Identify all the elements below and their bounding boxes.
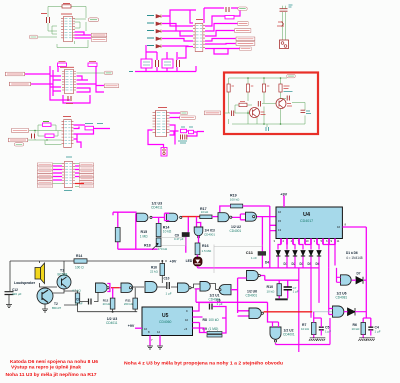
wire magenta IC1 out — [75, 32, 92, 38]
gate G2 NAND — [166, 213, 177, 221]
svg-text:16: 16 — [278, 210, 282, 214]
svg-text:200 kΩ: 200 kΩ — [124, 302, 133, 306]
resistor Ra5 — [239, 103, 247, 106]
diode D6b — [348, 308, 356, 316]
svg-text:+5: +5 — [184, 327, 188, 331]
IC3 gates — [62, 120, 74, 148]
svg-text:Katoda D6 není spojena na nohu: Katoda D6 není spojena na nohu 8 U6 — [10, 359, 98, 365]
wire magenta mid rail — [196, 289, 273, 322]
loudspeaker — [14, 263, 45, 285]
IC U4 CD4017 — [276, 207, 342, 239]
node label CON6B1_L5 — [11, 129, 28, 133]
svg-text:BD137: BD137 — [52, 306, 62, 310]
wire magenta IC3 right — [74, 125, 111, 148]
capacitor C4 — [368, 327, 373, 330]
capacitor bank AL2/C7 — [141, 59, 180, 68]
svg-text:Loudspeaker: Loudspeaker — [14, 281, 36, 285]
svg-text:R14: R14 — [76, 254, 82, 258]
wire red G2 to R17 — [182, 216, 200, 218]
wire magenta bus IC2 — [50, 63, 104, 103]
diodes D4 D1 D2 D3 D5 D6 — [265, 251, 321, 267]
IC U5 CD4060 — [142, 307, 193, 336]
wire magenta cap bus — [135, 66, 196, 72]
node JP labels column — [238, 22, 249, 26]
svg-text:1 MΩ: 1 MΩ — [140, 234, 148, 238]
node GND caps — [129, 71, 133, 73]
resistor R13b — [75, 293, 79, 303]
wire green amp rails — [224, 78, 305, 127]
svg-text:CD4060: CD4060 — [159, 320, 172, 324]
capacitor C16 — [226, 7, 229, 12]
svg-text:R16: R16 — [202, 244, 209, 248]
svg-text:10 kΩ: 10 kΩ — [163, 230, 172, 234]
resistor Ra1 — [227, 84, 230, 92]
resistor R16 22k — [160, 264, 165, 276]
connector MA-RIGHT — [277, 5, 293, 49]
svg-text:10: 10 — [306, 239, 310, 243]
capacitor Cc — [287, 96, 289, 101]
resistor R16b — [198, 236, 200, 243]
svg-text:13: 13 — [278, 228, 282, 232]
svg-text:CD4081: CD4081 — [336, 296, 348, 300]
capacitor C17 — [32, 134, 35, 139]
gate U1a left — [219, 285, 231, 295]
gray frame mid — [214, 245, 262, 274]
wire green harness IC1 — [38, 7, 88, 48]
transistor Q2amp — [276, 99, 286, 109]
svg-text:10 kΩ: 10 kΩ — [267, 289, 276, 293]
svg-text:1 µF: 1 µF — [217, 302, 223, 306]
svg-text:CD4001: CD4001 — [246, 294, 258, 298]
svg-text:1 µF: 1 µF — [325, 330, 331, 334]
svg-text:22 nF: 22 nF — [75, 302, 83, 306]
capacitor C15 — [68, 96, 71, 101]
svg-text:4.7 kΩ: 4.7 kΩ — [72, 289, 82, 293]
resistor R14 — [156, 223, 161, 236]
resistor R2 — [58, 63, 67, 66]
wire magenta diode drops — [276, 257, 331, 353]
svg-text:CD4001: CD4001 — [230, 229, 242, 233]
svg-text:1 µF: 1 µF — [293, 289, 299, 293]
transistor T1 BC548 — [57, 275, 71, 289]
wire magenta IC4 harness — [146, 8, 240, 60]
svg-text:C10: C10 — [164, 277, 170, 281]
node gnd green — [104, 71, 112, 75]
red correction box — [224, 73, 318, 135]
svg-text:R15: R15 — [141, 230, 148, 234]
capacitor C8 — [89, 299, 92, 305]
svg-text:LED: LED — [186, 259, 193, 263]
wires R7C5 — [314, 312, 322, 338]
gate GA — [96, 283, 108, 292]
svg-text:D4: D4 — [265, 261, 269, 265]
resistor R4 — [225, 16, 234, 19]
diode D7 — [356, 277, 363, 284]
wire red gate AB — [111, 287, 120, 289]
svg-text:Noha 11 U3 by měla jít nepřímo: Noha 11 U3 by měla jít nepřímo na R17 — [6, 372, 97, 378]
svg-text:100 Ω: 100 Ω — [75, 266, 84, 270]
node VCC oval IC5 — [180, 111, 188, 114]
wire red U1 out — [264, 311, 313, 313]
node left label column IC6 — [37, 163, 52, 166]
node OUT labels — [91, 33, 106, 37]
svg-text:16: 16 — [337, 225, 341, 229]
wire black R11 R12 — [78, 288, 138, 312]
svg-text:22 kΩ: 22 kΩ — [150, 270, 159, 274]
svg-text:(1 MΩ): (1 MΩ) — [209, 327, 219, 331]
svg-text:BC548: BC548 — [58, 273, 68, 277]
svg-text:CD4017: CD4017 — [300, 219, 313, 223]
capacitor C18 C19 — [181, 135, 187, 140]
svg-text:CD4001: CD4001 — [283, 333, 295, 337]
svg-text:12: 12 — [157, 330, 161, 334]
resistor Ra3 — [262, 84, 265, 92]
junction dots amp — [247, 77, 281, 125]
diode array D10-D14 — [147, 15, 161, 48]
wire magenta LED bus — [198, 266, 320, 268]
ground T2 — [44, 304, 46, 309]
gate G8 U6 AND — [333, 306, 344, 317]
wire magenta U4 right — [342, 227, 370, 327]
svg-text:100 kΩ: 100 kΩ — [230, 198, 240, 202]
IC2 CD4093 — [62, 69, 76, 93]
svg-text:U4: U4 — [303, 212, 311, 218]
gate GE — [200, 282, 210, 292]
gate G8d AND D7 — [341, 275, 352, 285]
wire magenta IC5 — [148, 113, 204, 148]
svg-text:U5: U5 — [162, 313, 169, 319]
resistor R3 — [88, 63, 97, 66]
resistor R14b 100R — [74, 259, 87, 263]
svg-text:+9V: +9V — [128, 324, 135, 328]
node labels right IC3 — [85, 123, 103, 125]
IC5 osc — [153, 110, 170, 136]
node GND label — [29, 35, 37, 39]
svg-text:10: 10 — [185, 318, 189, 322]
wire black left rails — [10, 261, 221, 305]
gate G4 NOR — [246, 212, 257, 221]
gate GB — [121, 283, 133, 292]
capacitor Cm — [258, 101, 260, 107]
wire magenta IC6 rows — [53, 166, 79, 180]
node GND amp — [266, 127, 269, 131]
node label CLK — [104, 84, 118, 88]
capacitor C12 — [5, 292, 14, 295]
svg-text:220 µF: 220 µF — [12, 292, 22, 296]
capacitor C14 — [47, 17, 50, 23]
resistor R6a — [45, 134, 54, 137]
resistor R13 — [62, 5, 71, 8]
svg-text:R8: R8 — [203, 318, 207, 322]
svg-text:0.47 µF: 0.47 µF — [174, 237, 184, 241]
svg-text:10 kΩ: 10 kΩ — [352, 327, 361, 331]
svg-text:15: 15 — [278, 219, 282, 223]
U5 ground stubs — [150, 336, 160, 346]
svg-text:Noha 4 z U3 by měla byt propoj: Noha 4 z U3 by měla byt propojena na noh… — [124, 360, 283, 366]
svg-text:Výstup na repro je úplně jinak: Výstup na repro je úplně jinak — [11, 365, 81, 371]
node VCC label — [88, 18, 98, 22]
node label CON6B1 — [9, 82, 30, 86]
node SIGNAL_IN — [204, 111, 220, 115]
wire magenta R8 R9 loop — [193, 303, 227, 334]
svg-text:1 µF: 1 µF — [375, 330, 381, 334]
svg-text:1 nF: 1 nF — [251, 256, 257, 260]
svg-text:D1 á D6: D1 á D6 — [346, 251, 358, 255]
svg-text:D7: D7 — [357, 272, 361, 276]
svg-text:+9V: +9V — [170, 260, 177, 264]
transistor Q1amp — [250, 108, 260, 118]
resistor R5a — [43, 123, 52, 126]
wire red IC6 — [75, 183, 84, 185]
IC4 counter — [193, 24, 205, 52]
resistor Ra4 R68 — [279, 84, 282, 92]
wire magenta gate A loop — [107, 284, 112, 299]
svg-text:10 kΩ: 10 kΩ — [201, 210, 208, 214]
wire gray U1 out — [312, 311, 333, 313]
ground bar R10 C7 — [275, 298, 288, 300]
svg-text:10 kΩ: 10 kΩ — [301, 327, 310, 331]
wire green harness IC3 — [28, 125, 62, 145]
wire magenta R19 — [220, 206, 276, 268]
node right label column IC6 — [79, 163, 93, 166]
capacitor Cout 50Hz — [301, 110, 306, 112]
capacitor Cin — [232, 111, 234, 117]
svg-text:R18: R18 — [144, 244, 151, 248]
connector J2 — [161, 148, 167, 157]
capacitor C6 — [210, 304, 213, 310]
resistor R15 — [115, 228, 120, 242]
node label CON6B1_L6 — [8, 138, 27, 142]
gate G1 NAND — [137, 213, 148, 221]
svg-text:4 = 1N4148: 4 = 1N4148 — [346, 256, 363, 260]
svg-text:100 kΩ: 100 kΩ — [209, 318, 220, 322]
resistor RCL1 — [85, 126, 94, 130]
capacitor C10 — [167, 282, 170, 289]
wire magenta U3 loop — [113, 212, 188, 253]
wires R6C4 — [363, 330, 371, 338]
wire magenta to labels — [25, 74, 53, 84]
node oval clusterC — [238, 7, 247, 11]
svg-text:CD4001: CD4001 — [204, 232, 215, 236]
svg-text:11: 11 — [337, 239, 340, 243]
svg-text:CD4011: CD4011 — [151, 205, 163, 209]
crystal Q1 — [181, 129, 187, 132]
node VCC amp — [287, 74, 295, 78]
capacitor C7 — [284, 287, 292, 290]
gray frame R18 — [158, 238, 186, 246]
node label CLK wide — [180, 116, 195, 119]
potentiometer R18 — [156, 238, 161, 247]
wire magenta U4 bottom stubs — [281, 239, 335, 245]
gate G5 — [247, 271, 259, 281]
svg-text:1.5 MΩ: 1.5 MΩ — [202, 249, 213, 253]
gate IC3v vertical — [197, 217, 201, 227]
svg-text:1 µF: 1 µF — [166, 292, 172, 296]
capacitor C5 — [319, 327, 324, 330]
capacitor C9 — [182, 232, 190, 237]
gate GD — [178, 283, 190, 292]
node label CON6B2 — [5, 72, 24, 76]
wire magenta G5 out to R10 rail — [238, 276, 299, 299]
gate GC — [145, 282, 157, 293]
gate G6 U1 — [249, 308, 261, 319]
IC1 CD4060 — [61, 16, 75, 41]
svg-text:20 kΩ: 20 kΩ — [103, 302, 110, 306]
gate G3 NOR — [218, 213, 229, 222]
svg-text:C11: C11 — [246, 250, 254, 255]
svg-text:470 kΩ: 470 kΩ — [158, 247, 168, 251]
transistor T2 BD137 — [37, 288, 53, 304]
gate G7 U2 vertical — [270, 327, 281, 339]
wire green IC6 rows — [53, 164, 79, 187]
IC6 port — [62, 161, 75, 187]
resistor Ra2 — [246, 84, 249, 92]
svg-text:CD4011: CD4011 — [106, 321, 118, 325]
